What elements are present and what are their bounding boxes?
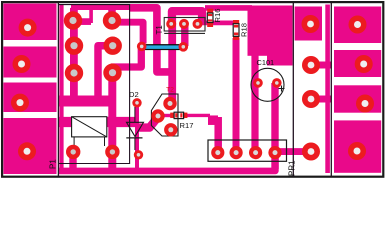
svg-text:C101: C101 xyxy=(257,58,275,67)
connector right pad area 3 xyxy=(334,85,381,112)
wire: B3 down through relay pad 2 xyxy=(108,68,116,170)
D2 pad bottom xyxy=(134,150,143,159)
zone separator line right xyxy=(330,3,332,177)
connector P1 pad area 2 xyxy=(3,47,56,78)
wire: junction horizontal below A3 xyxy=(59,96,114,107)
svg-text:T2: T2 xyxy=(166,87,174,94)
connector P1 pad area 4 xyxy=(3,118,56,174)
wire: top trace A1 to relay zone edge xyxy=(71,5,129,10)
right pad 3 xyxy=(356,95,374,113)
wire: elbow to PR1 pad1 vertical xyxy=(214,117,222,152)
P1 pad 1 xyxy=(19,19,37,37)
svg-text:PR1: PR1 xyxy=(288,160,297,176)
pad B3 xyxy=(103,63,121,81)
wire: D2 vertical xyxy=(135,103,139,168)
capacitor C101 outline xyxy=(251,68,284,101)
transformer T1 outline xyxy=(164,18,205,34)
connector right pad area 1 xyxy=(334,7,381,44)
wire: T1 pad2 to jumper right pad xyxy=(181,24,188,46)
wire: vertical trace along left separator xyxy=(59,5,63,170)
wire: pad column A vertical xyxy=(70,8,78,104)
copper pour top right xyxy=(248,6,293,56)
wire: stub middle pad 2 xyxy=(317,62,331,69)
wire: A1 loop riser xyxy=(89,7,93,24)
jumper pad right xyxy=(179,42,189,52)
P1 pad 4 xyxy=(18,142,36,160)
right pad 2 xyxy=(355,55,373,73)
pad A2 xyxy=(65,37,83,55)
T2 pad base xyxy=(151,109,164,122)
D2 pad top xyxy=(132,98,141,107)
T2 pad bottom xyxy=(164,123,177,136)
right pad 1 xyxy=(349,16,367,34)
transistor T2 outline xyxy=(151,94,178,136)
board outline border xyxy=(2,2,383,177)
pad A1 xyxy=(64,11,82,29)
relay K1 coil box xyxy=(72,117,107,147)
connector right pad area 4 xyxy=(334,120,381,172)
right pad 4 xyxy=(348,142,366,160)
PR1 pad 1 xyxy=(211,146,224,159)
T2 pad top xyxy=(163,97,176,110)
jumper wire blue xyxy=(142,44,182,50)
board background xyxy=(0,0,385,180)
relay pad 1 xyxy=(66,145,80,159)
svg-text:R18: R18 xyxy=(240,23,249,37)
wire: B2 elbow xyxy=(98,46,113,100)
connector P1 pad area 1 xyxy=(3,4,56,41)
middle pad 2 xyxy=(302,56,320,74)
wire: stub middle pad 3 xyxy=(317,96,331,103)
wire: elbow to PR1 pad1 horizontal xyxy=(208,115,218,125)
C101 pad 1 xyxy=(253,78,263,88)
P1 pad 3 xyxy=(11,94,29,112)
wire: staple over T1 xyxy=(172,11,202,21)
resistor R16 xyxy=(207,9,213,27)
wire: top trace right segment to pour xyxy=(205,5,252,11)
middle pad 1 xyxy=(302,15,320,33)
C101 plus mark xyxy=(279,86,285,92)
wire: B1 to jumper left pad xyxy=(112,22,143,43)
svg-text:P1: P1 xyxy=(49,159,58,169)
wire: T1 pad3 to R18 top xyxy=(198,20,237,25)
svg-text:T1: T1 xyxy=(155,25,164,35)
wire: zone edge corner down to T2 branch xyxy=(130,8,170,72)
resistor R17 xyxy=(170,112,187,118)
wire: relay pad1 down xyxy=(69,152,76,170)
svg-text:R16: R16 xyxy=(213,9,222,23)
relay pad 2 xyxy=(105,145,119,159)
wire: R17 out to elbow xyxy=(187,114,210,117)
relay zone outline box xyxy=(58,5,129,164)
wire: R18 down to PR1 pad2 xyxy=(233,38,240,153)
middle pad 3 xyxy=(302,90,320,108)
zone separator line mid-right xyxy=(292,3,294,177)
wire: pour down through C101 left pad to PR1 pad3 xyxy=(251,54,258,153)
middle pad 4 xyxy=(302,143,320,161)
C101 pad 2 xyxy=(272,78,282,88)
wire: jumper left pad down and to B3 xyxy=(111,46,141,67)
P1 pad 2 xyxy=(13,55,31,73)
zone separator line left xyxy=(57,3,59,177)
wire: T1 pad1 down to T2 top pad xyxy=(168,14,176,102)
pad A3 xyxy=(65,64,83,82)
T1 pad 1 xyxy=(166,19,176,29)
PR1 pad 3 xyxy=(249,146,262,159)
wire: thick trace into relay and to T2 base xyxy=(58,117,137,127)
connector PR1 outline xyxy=(208,140,287,161)
wire: vertical trace along right separator xyxy=(325,5,330,174)
wire: middle pad 4 to PR1 pad 4 xyxy=(274,148,311,155)
svg-text:R17: R17 xyxy=(180,121,194,130)
wire: T2 base pad to R17 xyxy=(159,114,172,117)
wire: B1 riser xyxy=(108,7,116,21)
pad B2 xyxy=(104,37,122,55)
connector right pad area 2 xyxy=(334,50,381,77)
PR1 pad 2 xyxy=(230,146,243,159)
T1 pad 2 xyxy=(179,19,189,29)
PR1 pad 4 xyxy=(268,146,281,159)
pad B1 xyxy=(103,11,121,29)
diode D2 symbol xyxy=(126,107,143,150)
resistor R18 xyxy=(233,20,239,40)
wire: C101 right pad down to PR1 pad4 xyxy=(271,83,278,169)
wire: bottom trace xyxy=(59,151,276,171)
wire: A1 loop arm xyxy=(76,18,91,25)
connector P1 pad area 3 xyxy=(3,83,56,113)
T1 pad 3 xyxy=(193,19,203,29)
middle connector pad area xyxy=(295,7,322,41)
svg-text:D2: D2 xyxy=(129,90,139,99)
jumper pad left xyxy=(137,42,147,52)
